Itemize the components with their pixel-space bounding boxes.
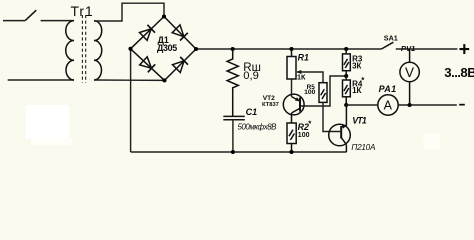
wire mains top lead [3, 20, 25, 22]
wire plus rail [196, 48, 381, 50]
svg-text:П210А: П210А [351, 143, 376, 152]
wire bridge left corner down to minus rail [130, 49, 132, 152]
svg-text:КТ837: КТ837 [262, 102, 279, 108]
svg-text:3К: 3К [352, 61, 361, 70]
resistor R5 [319, 83, 327, 103]
minus terminal dash [459, 104, 465, 106]
node bridge right corner [194, 47, 198, 51]
diode bridge D1: top-right diode [164, 17, 196, 50]
diode bridge D1: bottom-right diode [165, 49, 197, 80]
wire VT2 base to R3/R4 divider junction [301, 76, 345, 106]
svg-text:Tr1: Tr1 [71, 4, 94, 19]
wire Tr1 secondary bottom to bridge bottom corner [94, 79, 165, 81]
node R1 top [289, 47, 293, 51]
capacitor C1 [223, 116, 245, 152]
wire Tr1 secondary top to bridge top corner [94, 3, 164, 21]
node R2 bottom [289, 150, 293, 154]
node Rsh top [231, 47, 235, 51]
node R3/R4 junction [344, 74, 348, 78]
wire R1 bottom to VT2 emitter [291, 79, 293, 97]
switch SA1 blade [381, 42, 393, 49]
svg-text:PA1: PA1 [379, 84, 397, 94]
resistor R4 [343, 76, 351, 105]
node R4 bottom / VT1 emitter junction [344, 103, 348, 107]
transformer Tr1 secondary winding [94, 21, 102, 80]
svg-text:R1: R1 [298, 52, 309, 62]
switch S (mains) blade [25, 10, 36, 20]
wire R1 wiper to R5 top [301, 72, 324, 83]
diode bridge D1: bottom-left diode [131, 49, 165, 81]
svg-text:VT1: VT1 [352, 116, 367, 126]
transistor VT1 [329, 105, 351, 152]
wire SA1 to plus terminal [396, 48, 458, 50]
transformer Tr1 core [82, 15, 85, 83]
svg-text:1К: 1К [297, 73, 306, 82]
svg-text:SA1: SA1 [384, 34, 398, 43]
resistor R3 [343, 49, 351, 76]
svg-text:500мкфх8В: 500мкфх8В [238, 122, 277, 131]
diode bridge D1: top-left diode [131, 17, 165, 49]
wire ammeter to minus terminal [399, 104, 457, 106]
wire minus bottom rail [131, 151, 347, 153]
svg-text:1К: 1К [352, 86, 361, 95]
transistor VT2 [283, 94, 304, 123]
svg-text:V: V [405, 65, 414, 80]
ammeter PA1 [378, 95, 398, 115]
resistor Rsh zigzag [227, 49, 238, 116]
wire mains bottom lead to Tr1 primary bottom [8, 79, 74, 81]
node bridge left corner [128, 47, 132, 51]
svg-text:Д305: Д305 [157, 43, 177, 53]
svg-text:0,9: 0,9 [243, 70, 259, 82]
svg-text:R2: R2 [298, 122, 309, 132]
wire R4 junction to ammeter [346, 104, 377, 106]
node bridge bottom corner [162, 78, 166, 82]
svg-text:C1: C1 [246, 107, 258, 117]
node voltmeter minus junction [408, 103, 412, 107]
potentiometer R1 [287, 49, 301, 79]
voltmeter PV1 [400, 49, 419, 105]
svg-text:PV1: PV1 [401, 44, 415, 53]
node R3 top [344, 47, 348, 51]
svg-text:100: 100 [298, 132, 310, 139]
resistor R2 [287, 123, 296, 152]
svg-text:+: + [459, 39, 470, 61]
svg-text:3...8В: 3...8В [444, 65, 474, 80]
svg-text:100: 100 [304, 89, 316, 96]
wire switch to Tr1 primary top [41, 20, 74, 22]
svg-text:A: A [384, 99, 393, 113]
wire R5 bottom / VT2 base junction / to VT1 base [323, 102, 340, 131]
transformer Tr1 primary winding [66, 21, 74, 80]
node bridge top corner [162, 14, 166, 18]
node C1 bottom [231, 150, 235, 154]
